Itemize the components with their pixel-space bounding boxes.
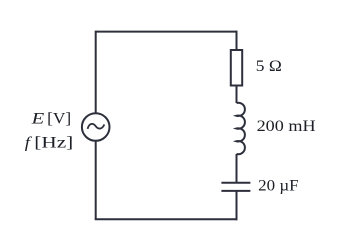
wire resistor to inductor [236, 86, 238, 104]
wire top [96, 31, 237, 33]
source V1 sine symbol [88, 124, 105, 129]
wire inductor to capacitor [236, 154, 238, 183]
svg-text:[Hz]: [Hz] [34, 134, 73, 151]
svg-text:[V]: [V] [47, 110, 71, 127]
wire left lower [95, 141, 97, 220]
wire right: top to resistor [236, 31, 238, 50]
svg-text:f: f [25, 134, 33, 151]
wire capacitor to bottom [236, 191, 238, 220]
wire left upper [95, 31, 97, 114]
capacitor C1 top plate [221, 182, 250, 184]
svg-text:200 mH: 200 mH [257, 118, 317, 135]
wire bottom [95, 218, 237, 220]
inductor L1 coil [237, 103, 245, 154]
svg-text:5 Ω: 5 Ω [256, 58, 282, 75]
resistor R1 body [231, 50, 242, 86]
source V1 (AC) [82, 113, 110, 141]
svg-text:20 µF: 20 µF [258, 178, 298, 195]
capacitor C1 bottom plate [221, 190, 250, 192]
svg-text:E: E [30, 110, 44, 127]
